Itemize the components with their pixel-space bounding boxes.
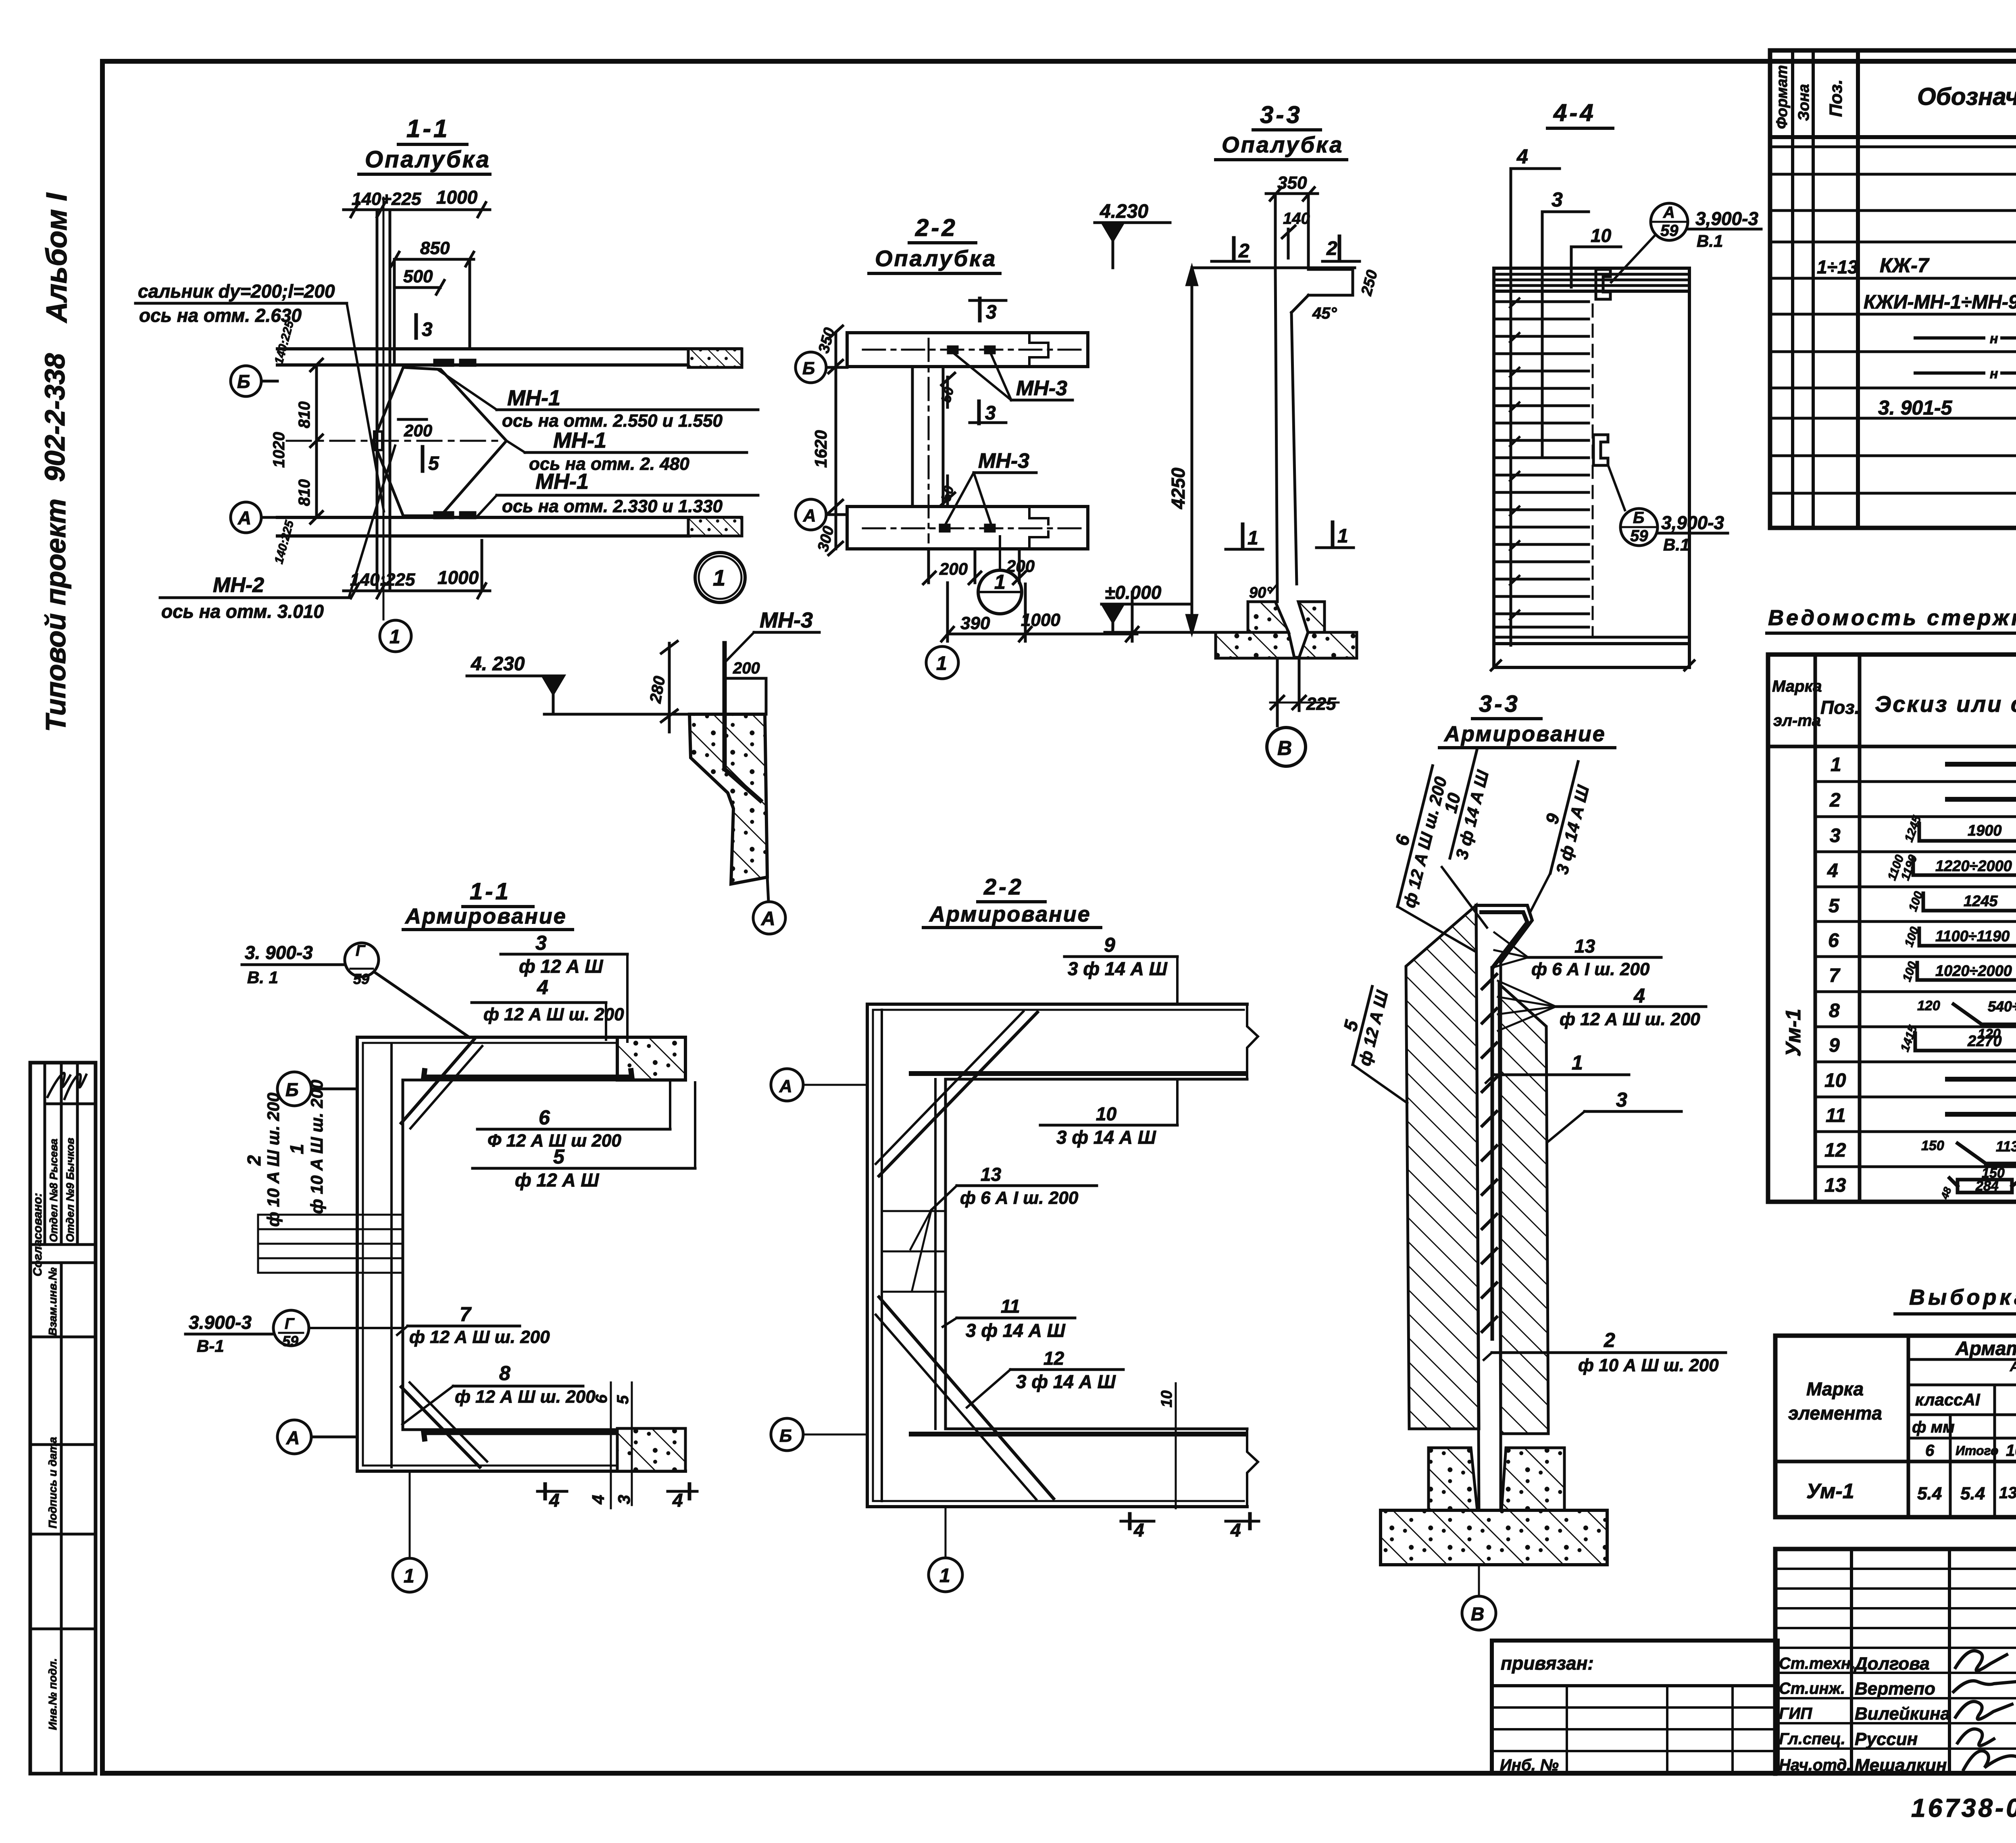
s11arm axis bubble 1 bbox=[409, 1471, 411, 1558]
svg-text:ф 12 А Ш ш. 200: ф 12 А Ш ш. 200 bbox=[1560, 1009, 1700, 1029]
s22arm axis bubble 1 bbox=[945, 1507, 947, 1557]
svg-text:4.230: 4.230 bbox=[1100, 201, 1148, 222]
svg-text:Взам.инв.№: Взам.инв.№ bbox=[46, 1268, 59, 1336]
s33op wall top stub bbox=[1274, 194, 1277, 269]
spec table header bottom bbox=[1770, 135, 2016, 139]
s11arm bottom panel hatch bbox=[617, 1428, 685, 1471]
svg-text:1000: 1000 bbox=[1021, 610, 1060, 630]
s33arm right hatched band bbox=[1499, 984, 1548, 1434]
svg-text:4: 4 bbox=[537, 976, 548, 999]
svg-text:59: 59 bbox=[353, 971, 369, 987]
svg-text:ось на отм. 2.330 и 1.330: ось на отм. 2.330 и 1.330 bbox=[502, 496, 723, 516]
svg-text:Отдел №9 Бычков: Отдел №9 Бычков bbox=[64, 1138, 76, 1242]
svg-text:4: 4 bbox=[1633, 984, 1645, 1007]
svg-text:48: 48 bbox=[1938, 1185, 1954, 1201]
bar schedule table (Ведомость стержней) bbox=[1767, 606, 2016, 1202]
svg-text:2: 2 bbox=[1829, 790, 1841, 811]
svg-text:1000: 1000 bbox=[437, 567, 479, 588]
s22op axis circle Б bbox=[796, 352, 826, 383]
svg-text:Зона: Зона bbox=[1795, 84, 1812, 121]
svg-text:МН-3: МН-3 bbox=[760, 608, 813, 632]
svg-text:4. 230: 4. 230 bbox=[471, 653, 525, 675]
s44 bottom ticks bbox=[1491, 661, 1501, 670]
svg-text:250: 250 bbox=[1358, 268, 1381, 298]
svg-text:Вилейкина: Вилейкина bbox=[1855, 1704, 1950, 1724]
svg-text:3: 3 bbox=[1616, 1088, 1627, 1111]
svg-text:6: 6 bbox=[1391, 832, 1414, 848]
svg-text:Долгова: Долгова bbox=[1853, 1654, 1930, 1674]
svg-text:ф 6 А I ш. 200: ф 6 А I ш. 200 bbox=[1531, 959, 1650, 979]
svg-text:4: 4 bbox=[1827, 860, 1838, 882]
s11arm heavy bar pos3 top bbox=[424, 1071, 632, 1077]
s11arm outline top edge bbox=[357, 1036, 619, 1039]
svg-text:Арматурные изделия: Арматурные изделия bbox=[1955, 1338, 2016, 1359]
svg-text:Опалубка: Опалубка bbox=[1222, 132, 1343, 157]
vyborka verticals bbox=[1907, 1336, 1910, 1517]
signature squiggles bbox=[1956, 1651, 2007, 1671]
svg-text:н: н bbox=[1990, 366, 1998, 382]
s44 bar arrowheads bbox=[1510, 298, 1519, 619]
svg-text:810: 810 bbox=[296, 401, 313, 428]
svg-text:Ум-1: Ум-1 bbox=[1782, 1009, 1805, 1057]
svg-text:2: 2 bbox=[1238, 240, 1250, 262]
svg-text:3 ф 14 А Ш: 3 ф 14 А Ш bbox=[1016, 1371, 1116, 1392]
svg-text:3,900-3: 3,900-3 bbox=[1695, 208, 1758, 229]
s11op lower wall panel hatch bbox=[688, 517, 742, 536]
svg-text:1245: 1245 bbox=[1964, 893, 1998, 910]
svg-text:1: 1 bbox=[994, 571, 1006, 593]
svg-text:Б: Б bbox=[779, 1426, 792, 1446]
svg-text:59: 59 bbox=[282, 1333, 298, 1349]
svg-text:3: 3 bbox=[535, 932, 547, 954]
s44 bottom bars bbox=[1494, 636, 1689, 639]
svg-text:ф 6 А I ш. 200: ф 6 А I ш. 200 bbox=[960, 1188, 1079, 1208]
svg-text:ф 12 А Ш ш. 200: ф 12 А Ш ш. 200 bbox=[483, 1005, 624, 1024]
svg-text:1: 1 bbox=[713, 565, 725, 590]
svg-text:Нач.отд.: Нач.отд. bbox=[1779, 1756, 1851, 1774]
left stamp strip bbox=[30, 1063, 96, 1774]
s11op lower wall (axis А) bbox=[277, 516, 741, 519]
svg-text:3-3: 3-3 bbox=[1260, 101, 1302, 128]
s11arm web tie rungs bbox=[258, 1214, 401, 1216]
s44 dashed edge line bbox=[1592, 304, 1594, 635]
svg-text:3: 3 bbox=[614, 1495, 633, 1504]
svg-text:А: А bbox=[761, 908, 775, 930]
svg-text:4250: 4250 bbox=[1168, 467, 1189, 509]
svg-text:Марка: Марка bbox=[1806, 1378, 1864, 1399]
svg-text:Мешалкин: Мешалкин bbox=[1855, 1755, 1947, 1775]
s22arm axis circle А bbox=[771, 1069, 803, 1101]
left margin rotated captions bbox=[39, 192, 73, 732]
svg-text:13: 13 bbox=[1824, 1175, 1846, 1196]
svg-text:902-2-338: 902-2-338 bbox=[39, 353, 71, 482]
svg-text:140:225: 140:225 bbox=[272, 319, 297, 366]
mn3 extension to axis bbox=[765, 678, 768, 714]
svg-text:284: 284 bbox=[1975, 1178, 1999, 1194]
svg-text:В. 1: В. 1 bbox=[247, 968, 278, 987]
s33op foundation slab bbox=[1216, 632, 1357, 658]
svg-text:В: В bbox=[1471, 1603, 1484, 1624]
s22op embedded plates МН-3 dots bbox=[948, 347, 957, 353]
spec row То же МН-2 bbox=[1915, 336, 1984, 340]
s22arm heavy bar bottom bbox=[911, 1432, 1245, 1436]
s33arm rotated label 5 bbox=[1332, 981, 1392, 1070]
svg-text:Гл.спец.: Гл.спец. bbox=[1779, 1730, 1845, 1748]
s22arm break marks right bbox=[1247, 1004, 1258, 1079]
svg-text:150: 150 bbox=[1921, 1138, 1944, 1153]
svg-text:1020: 1020 bbox=[270, 432, 288, 468]
s11op axis circle А bbox=[231, 502, 261, 533]
svg-text:Б: Б bbox=[802, 359, 815, 378]
svg-text:1: 1 bbox=[286, 1144, 307, 1154]
s44 callout А 59 bbox=[1651, 203, 1688, 240]
s44 body outline bbox=[1494, 268, 1689, 667]
mn3 concrete body bbox=[689, 714, 767, 884]
s11op gland plate bbox=[374, 432, 382, 450]
svg-text:16738-01: 16738-01 bbox=[1911, 1793, 2016, 1822]
svg-text:6: 6 bbox=[593, 1394, 610, 1403]
s22op detail bubble 1 bbox=[978, 570, 1022, 614]
svg-text:140: 140 bbox=[1283, 210, 1310, 227]
svg-text:ф 12 А Ш: ф 12 А Ш bbox=[519, 956, 603, 977]
svg-text:7: 7 bbox=[1829, 965, 1841, 986]
svg-text:45°: 45° bbox=[1312, 304, 1337, 322]
svg-text:Итого: Итого bbox=[1956, 1443, 1998, 1458]
svg-text:5: 5 bbox=[1829, 895, 1840, 917]
svg-text:Вертепо: Вертепо bbox=[1855, 1679, 1935, 1699]
s33op long dim 4250 bbox=[1191, 268, 1193, 632]
s22op axis circle А bbox=[796, 499, 826, 530]
svg-text:1: 1 bbox=[389, 626, 400, 648]
svg-text:Б: Б bbox=[1633, 509, 1644, 527]
svg-text:эл-та: эл-та bbox=[1773, 712, 1821, 730]
vyborka horizontals bbox=[1908, 1358, 2016, 1361]
svg-text:4: 4 bbox=[549, 1490, 560, 1511]
s33arm vertical bar 1 bbox=[1491, 968, 1494, 1339]
svg-text:В-1: В-1 bbox=[197, 1336, 224, 1355]
s44 callout Б 59 bbox=[1620, 509, 1658, 546]
s11arm corner diagonal top bbox=[401, 1039, 474, 1123]
svg-text:Армирование: Армирование bbox=[1443, 722, 1606, 746]
svg-text:59: 59 bbox=[1630, 527, 1648, 545]
svg-text:10: 10 bbox=[1158, 1391, 1175, 1407]
svg-text:В.1: В.1 bbox=[1663, 535, 1689, 554]
svg-text:привязан:: привязан: bbox=[1501, 1653, 1594, 1674]
svg-text:А: А bbox=[803, 506, 816, 525]
svg-text:1620: 1620 bbox=[811, 430, 830, 468]
svg-text:ось на отм. 2.630: ось на отм. 2.630 bbox=[139, 305, 302, 326]
svg-text:ф 10 А Ш ш. 200: ф 10 А Ш ш. 200 bbox=[264, 1092, 283, 1227]
svg-text:10: 10 bbox=[2006, 1442, 2016, 1459]
svg-text:3: 3 bbox=[986, 302, 997, 323]
svg-text:280: 280 bbox=[646, 675, 669, 705]
s11arm axis circle Б bbox=[277, 1072, 311, 1106]
vedomost rows content bbox=[1824, 754, 2016, 1201]
svg-text:10: 10 bbox=[1591, 225, 1612, 246]
svg-text:КЖ-7: КЖ-7 bbox=[1880, 254, 1930, 277]
s44 top dense bars bbox=[1494, 273, 1689, 276]
svg-text:Арматурная сталь: Арматурная сталь bbox=[2010, 1359, 2016, 1374]
s33op foundation pier bbox=[1248, 602, 1289, 632]
svg-text:3. 901-5: 3. 901-5 bbox=[1878, 396, 1953, 419]
svg-text:Эскиз или сечение: Эскиз или сечение bbox=[1875, 691, 2016, 717]
s11arm web bbox=[356, 1037, 359, 1471]
svg-text:1020÷2000: 1020÷2000 bbox=[1935, 963, 2012, 980]
svg-text:12: 12 bbox=[1043, 1348, 1064, 1369]
s22arm top flange inner edge bbox=[946, 1078, 1247, 1081]
svg-text:2-2: 2-2 bbox=[915, 214, 958, 241]
s11op upper wall (axis Б) bbox=[277, 347, 741, 350]
steel summary table (Выборка стали) bbox=[1775, 1285, 2016, 1517]
s33arm foundation slab bbox=[1381, 1510, 1607, 1565]
svg-text:4: 4 bbox=[589, 1495, 608, 1505]
svg-text:3: 3 bbox=[1552, 188, 1563, 211]
svg-text:КЖИ-МН-1÷МН-9: КЖИ-МН-1÷МН-9 bbox=[1864, 292, 2016, 313]
svg-text:сальник dу=200;l=200: сальник dу=200;l=200 bbox=[138, 281, 335, 302]
svg-text:11: 11 bbox=[1826, 1105, 1846, 1126]
stamp strip outline bbox=[30, 1063, 96, 1774]
svg-text:Инб. №: Инб. № bbox=[1500, 1756, 1559, 1774]
svg-text:±0.000: ±0.000 bbox=[1105, 582, 1162, 603]
svg-text:МН-1: МН-1 bbox=[553, 428, 606, 452]
mn3 axis circle А bbox=[753, 902, 785, 934]
svg-text:элемента: элемента bbox=[1788, 1403, 1882, 1424]
svg-text:2270: 2270 bbox=[1967, 1033, 2002, 1050]
svg-text:Отдел №8 Рысева: Отдел №8 Рысева bbox=[48, 1138, 60, 1242]
svg-text:Формат: Формат bbox=[1774, 65, 1791, 129]
svg-text:3 ф 14 А Ш: 3 ф 14 А Ш bbox=[1552, 783, 1593, 876]
vedomost row lines bbox=[1815, 780, 2016, 783]
s33arm foundation pier bbox=[1429, 1448, 1477, 1510]
svg-text:5.4: 5.4 bbox=[1917, 1484, 1942, 1503]
svg-text:МН-3: МН-3 bbox=[978, 449, 1029, 473]
spec row То же МН-3 bbox=[1915, 371, 1984, 375]
svg-text:Г: Г bbox=[285, 1316, 295, 1332]
svg-text:3: 3 bbox=[985, 402, 996, 424]
s22arm web bars bbox=[881, 1010, 883, 1501]
s33op bottom dim 225 bbox=[1276, 658, 1279, 726]
specification table (top right) bbox=[1770, 50, 2016, 528]
svg-text:Опалубка: Опалубка bbox=[365, 146, 491, 173]
s11arm right small dims 6 5 bbox=[610, 1382, 612, 1508]
svg-text:МН-3: МН-3 bbox=[1016, 377, 1067, 400]
title block bbox=[1775, 1549, 2016, 1775]
s22arm bottom section marks bbox=[1121, 1520, 1154, 1523]
s22arm corner diagonal top bbox=[879, 1012, 1037, 1176]
svg-text:Ум-1: Ум-1 bbox=[1806, 1480, 1854, 1503]
svg-text:1: 1 bbox=[1248, 527, 1258, 549]
s33op web bbox=[1275, 269, 1277, 602]
s33arm top hook bbox=[1476, 905, 1532, 962]
svg-text:9: 9 bbox=[1542, 811, 1564, 826]
svg-text:Подпись и дата: Подпись и дата bbox=[46, 1437, 59, 1528]
s22arm bottom flange inner edge bbox=[946, 1428, 1247, 1430]
svg-text:140+225: 140+225 bbox=[352, 189, 421, 209]
s11op lower wall embedded plates МН-1 bbox=[435, 513, 453, 518]
svg-text:5.4: 5.4 bbox=[1960, 1484, 1985, 1503]
svg-text:2: 2 bbox=[1326, 238, 1337, 259]
svg-text:350: 350 bbox=[1277, 173, 1307, 193]
svg-text:Опалубка: Опалубка bbox=[875, 246, 997, 271]
svg-text:ГИП: ГИП bbox=[1779, 1705, 1812, 1722]
svg-text:Инв.№ подл.: Инв.№ подл. bbox=[46, 1658, 59, 1730]
svg-text:1900: 1900 bbox=[1968, 822, 2002, 839]
title block top edge bbox=[1775, 1547, 2016, 1551]
s33op chamfer 45 bbox=[1291, 295, 1308, 313]
svg-text:13: 13 bbox=[981, 1164, 1002, 1185]
svg-text:4: 4 bbox=[1230, 1520, 1241, 1541]
s33arm rotated label 10 bbox=[1430, 744, 1497, 863]
svg-text:2: 2 bbox=[1604, 1329, 1615, 1351]
s22arm tie rungs bbox=[882, 1210, 946, 1212]
svg-text:2-2: 2-2 bbox=[983, 874, 1024, 899]
svg-text:132.7: 132.7 bbox=[1999, 1484, 2016, 1502]
title block small rows bbox=[1775, 1568, 2016, 1570]
s11op vertical extension lines bbox=[376, 210, 379, 588]
svg-text:810: 810 bbox=[296, 479, 313, 506]
s11op axis circle Б bbox=[231, 366, 261, 396]
svg-text:1: 1 bbox=[1337, 525, 1348, 547]
s33op step right bbox=[1308, 268, 1353, 271]
svg-text:1: 1 bbox=[404, 1566, 414, 1587]
s22op bottom flange socket notch bbox=[1029, 507, 1048, 549]
spec table outline bbox=[1770, 50, 2016, 528]
s11op upper wall panel hatch bbox=[688, 349, 742, 367]
s11op centre dash line bbox=[287, 440, 504, 442]
svg-text:ф 10 А Ш ш. 200: ф 10 А Ш ш. 200 bbox=[307, 1080, 326, 1214]
s33op section flags 2 bbox=[1232, 238, 1236, 260]
s33arm left hatched band bbox=[1406, 905, 1479, 1429]
svg-text:ф 10 А Ш ш. 200: ф 10 А Ш ш. 200 bbox=[1578, 1355, 1719, 1375]
svg-text:2: 2 bbox=[244, 1155, 264, 1166]
svg-text:Ст.техн.: Ст.техн. bbox=[1779, 1655, 1855, 1672]
svg-text:6: 6 bbox=[539, 1106, 550, 1129]
mn3 dim 280 bbox=[668, 643, 671, 732]
svg-text:3,900-3: 3,900-3 bbox=[1661, 512, 1724, 533]
svg-text:5: 5 bbox=[1339, 1017, 1362, 1033]
s11arm axis circle А bbox=[277, 1420, 311, 1454]
svg-text:225: 225 bbox=[1306, 694, 1336, 714]
svg-text:10: 10 bbox=[1096, 1103, 1117, 1124]
svg-text:120: 120 bbox=[1917, 998, 1940, 1013]
s11op axis bubble 1 bbox=[380, 620, 411, 652]
svg-text:1220÷2000: 1220÷2000 bbox=[1935, 858, 2012, 875]
svg-text:МН-2: МН-2 bbox=[213, 573, 264, 597]
svg-text:Поз.: Поз. bbox=[1820, 697, 1860, 718]
svg-text:10: 10 bbox=[1824, 1070, 1846, 1091]
vedomost header separator bbox=[1768, 745, 2016, 748]
s33arm bar ticks bbox=[1482, 974, 1497, 1332]
svg-text:4: 4 bbox=[672, 1490, 683, 1511]
svg-text:1: 1 bbox=[1831, 754, 1841, 776]
svg-text:4-4: 4-4 bbox=[1553, 99, 1596, 126]
svg-text:Марка: Марка bbox=[1772, 678, 1822, 695]
svg-text:1: 1 bbox=[1572, 1051, 1583, 1074]
svg-text:Б: Б bbox=[237, 371, 250, 392]
s22arm heavy bar top bbox=[911, 1071, 1245, 1076]
attachment box (привязан) bbox=[1492, 1641, 1778, 1774]
svg-text:1: 1 bbox=[936, 653, 947, 674]
svg-text:н: н bbox=[1990, 331, 1998, 346]
svg-text:МН-1: МН-1 bbox=[535, 469, 589, 494]
s11op left dim 1020/810/810 bbox=[315, 365, 318, 517]
spec table row lines bbox=[1770, 146, 2016, 148]
svg-text:4: 4 bbox=[1516, 145, 1528, 168]
svg-text:9: 9 bbox=[1104, 934, 1115, 956]
svg-text:ф 12 А Ш ш. 200: ф 12 А Ш ш. 200 bbox=[455, 1387, 596, 1407]
svg-text:Выборка стали на один э: Выборка стали на один элемент, кг bbox=[1909, 1285, 2016, 1309]
s11op detail bubble 1 bbox=[695, 552, 745, 603]
svg-text:ось на отм. 3.010: ось на отм. 3.010 bbox=[161, 601, 324, 622]
s11arm top panel hatch bbox=[617, 1037, 685, 1080]
s44 ladder bars bbox=[1497, 302, 1589, 627]
s33arm rotated label 6 bbox=[1377, 761, 1453, 912]
svg-text:13: 13 bbox=[1574, 936, 1595, 957]
svg-text:Альбом I: Альбом I bbox=[41, 192, 73, 323]
svg-text:1-1: 1-1 bbox=[470, 878, 511, 905]
s33op level line 4230 top bbox=[1193, 267, 1355, 269]
svg-text:3-3: 3-3 bbox=[1479, 691, 1520, 717]
svg-text:Ст.инж.: Ст.инж. bbox=[1779, 1680, 1845, 1697]
svg-text:8: 8 bbox=[499, 1362, 510, 1384]
svg-text:59: 59 bbox=[1660, 222, 1679, 240]
svg-text:3: 3 bbox=[1830, 825, 1841, 846]
svg-text:1100÷1190: 1100÷1190 bbox=[1935, 928, 2010, 945]
svg-text:Г: Г bbox=[356, 942, 366, 959]
s22op top flange socket notch bbox=[1029, 333, 1048, 367]
svg-text:11: 11 bbox=[1001, 1296, 1020, 1317]
svg-text:ф мм: ф мм bbox=[1912, 1418, 1955, 1436]
s33arm axis circle В bbox=[1478, 1565, 1480, 1596]
title block signature rows bbox=[1775, 1672, 2016, 1674]
svg-text:540÷760: 540÷760 bbox=[1988, 998, 2016, 1015]
svg-text:Армирование: Армирование bbox=[929, 902, 1091, 926]
svg-text:200: 200 bbox=[404, 421, 432, 440]
s11op upper wall embedded plates МН-1 bbox=[435, 360, 453, 365]
s11op section flag 3 bbox=[414, 315, 418, 338]
s11op centre axis line 1 bbox=[383, 198, 385, 619]
svg-text:А: А bbox=[286, 1427, 300, 1448]
svg-text:1-1: 1-1 bbox=[406, 115, 450, 143]
s33arm web lines bbox=[1476, 905, 1479, 1510]
s22arm right dim bbox=[1175, 1383, 1177, 1508]
svg-text:1÷13: 1÷13 bbox=[1817, 256, 1858, 277]
s33op section flags 1 bbox=[1241, 524, 1245, 548]
svg-text:А: А bbox=[779, 1076, 792, 1096]
stamp signature squiggles bbox=[48, 1073, 70, 1097]
s11arm top flange inner edge bbox=[403, 1079, 617, 1082]
vedomost outline bbox=[1768, 655, 2016, 1202]
svg-text:Типовой проект: Типовой проект bbox=[40, 498, 71, 732]
s22op axis bubble 1 bbox=[926, 646, 958, 679]
svg-text:А: А bbox=[237, 507, 251, 528]
svg-text:1130: 1130 bbox=[1996, 1138, 2016, 1155]
svg-text:В.1: В.1 bbox=[1697, 231, 1723, 250]
svg-text:Поз.: Поз. bbox=[1826, 79, 1846, 117]
svg-text:5: 5 bbox=[614, 1395, 632, 1404]
s22op section flag 3 top bbox=[978, 298, 982, 321]
s11op section flag 5 bbox=[421, 447, 425, 471]
svg-text:9: 9 bbox=[1829, 1035, 1840, 1056]
s33arm rotated label 9 bbox=[1531, 757, 1598, 878]
s11arm bottom flange bbox=[357, 1470, 685, 1473]
bottom margin annotations bbox=[1911, 1790, 2016, 1825]
svg-text:200: 200 bbox=[939, 559, 968, 578]
svg-text:классАI: классАI bbox=[1915, 1390, 1981, 1409]
svg-text:Ведомость стержней на один: Ведомость стержней на один элемент bbox=[1768, 606, 2016, 630]
s44 embedded plate top bbox=[1596, 269, 1610, 299]
svg-text:ф 12 А Ш: ф 12 А Ш bbox=[515, 1170, 599, 1190]
